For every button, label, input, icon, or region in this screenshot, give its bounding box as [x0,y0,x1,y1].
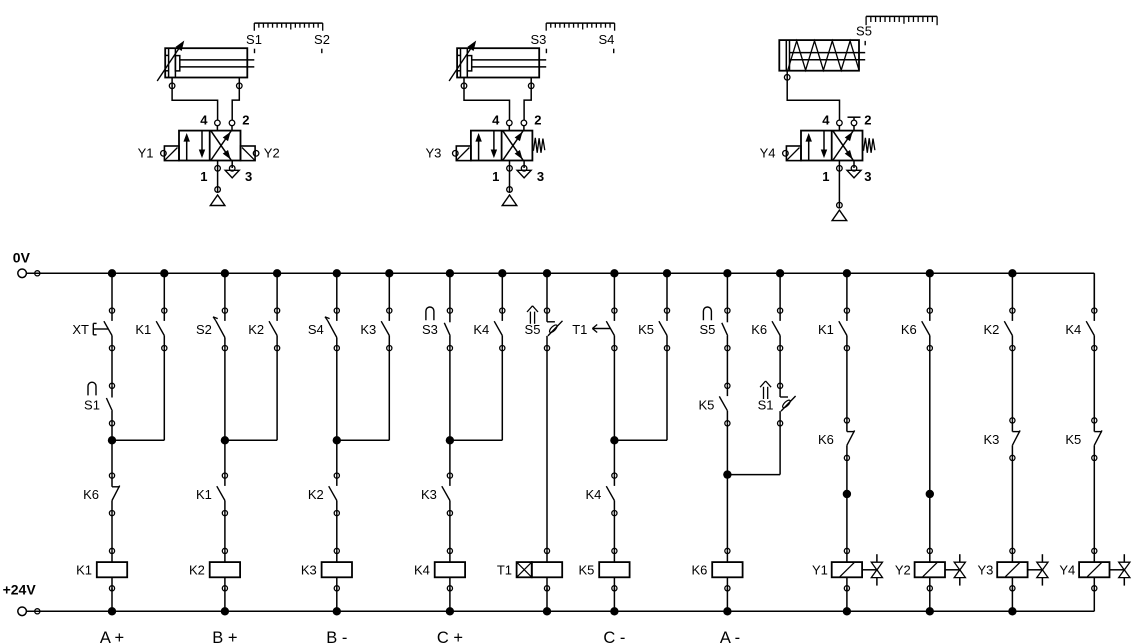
contact K2 (NO) [308,473,340,516]
junction dots rung A- [723,269,731,615]
wire solenoid Y3 to +24V [1011,588,1013,611]
wire 0V to XT [111,273,113,310]
svg-text:K1: K1 [818,322,834,337]
junction dot branch K3 [385,269,393,277]
node join K5 branch [610,436,667,444]
compressed air supply for V2 [502,187,517,206]
valve V3 port 4 pin [837,120,843,131]
valve V2 port 4 pin [507,120,513,131]
valve V2 port 2 pin [521,120,527,131]
valve V3 port 3 label [864,169,871,184]
label C - [603,629,625,644]
valve V3 return spring [864,138,875,153]
node join K4 branch [446,436,503,444]
valve V1 port 3 exhaust [225,161,239,178]
svg-text:K3: K3 [983,432,999,447]
0V label [13,250,31,266]
wire coil K2 to +24V [224,588,226,611]
node join K3 branch [333,436,390,444]
wire 0V to S4 [336,273,338,310]
junction dots rung B+ [221,269,229,615]
solenoid Y1 [138,146,179,161]
svg-text:K6: K6 [751,322,767,337]
wire S1 branch down [779,423,781,474]
valve V1 port 4 label [200,112,208,127]
svg-text:0V: 0V [13,250,31,266]
svg-text:T1: T1 [572,322,587,337]
wire node to K1 [224,440,226,475]
junction dots rung C+ [446,269,454,615]
wire 0V to S5 reed [726,273,728,310]
solenoid coil Y4 [1059,548,1130,591]
wire cylinder A left port to valve port 4 [172,89,218,121]
svg-text:Y1: Y1 [812,563,828,578]
right edge wire (top rail to Y4 rung) [1093,273,1095,310]
wire 0V to K2 contact [1011,273,1013,310]
svg-text:B -: B - [326,629,347,644]
contact K6 (NO) [901,308,933,351]
wire coil K1 to +24V [111,588,113,611]
wire node to coil K6 [726,475,728,551]
junction dots rung Y3 [1008,269,1016,615]
wire node to K4 [613,440,615,475]
wire solenoid Y4 to bottom rail corner [1093,588,1095,611]
wire 0V to S2 [224,273,226,310]
proximity sensor label S3 [530,32,546,53]
svg-text:S1: S1 [246,32,262,47]
contact K2 (NO, self-holding) [248,308,280,351]
distance ruler for cylinder A [254,23,322,31]
junction dot branch K4 [498,269,506,277]
wire S5 to K5 [726,348,728,386]
contact K1 (NO) [818,308,850,351]
contact K1 (NO) [196,473,228,516]
contact K2 (NO) [983,308,1015,351]
svg-text:XT: XT [72,322,89,337]
junction dots rung C- [610,269,618,615]
contact K6 (NC) [83,473,120,516]
svg-text:S3: S3 [530,32,546,47]
valve V3 port 3 exhaust [847,161,861,178]
wire K2 to K3 [1011,348,1013,420]
valve V3 port 1 pin [837,161,843,208]
wire S2 to node [224,348,226,440]
svg-text:S2: S2 [196,322,212,337]
valve V2 port 4 label [492,112,500,127]
svg-text:2: 2 [534,112,541,127]
wire S1 to node [111,423,113,440]
+24V supply rail [18,607,1095,616]
svg-text:C -: C - [603,629,625,644]
contact K5 (NO) [698,383,730,426]
junction dots rung A+ [108,269,116,615]
relay coil K3 [301,548,352,591]
svg-text:S3: S3 [422,322,438,337]
wire coil K3 to +24V [336,588,338,611]
wire coil K4 to +24V [449,588,451,611]
valve V1 port 1 label [200,169,207,184]
svg-text:K3: K3 [360,322,376,337]
svg-text:K1: K1 [135,322,151,337]
svg-text:3: 3 [245,169,252,184]
solenoid coil Y1 [812,548,883,591]
wire 0V to K6 contact [929,273,931,310]
valve V2 port 1 label [492,169,499,184]
wire K6 to coil K1 [111,513,113,551]
wire K6 to solenoid Y1 [846,458,848,551]
wire S3 to node [449,348,451,440]
cylinder C (single-acting with spring return) [779,40,865,81]
svg-text:K6: K6 [691,563,707,578]
cylinder B (double-acting with adjustable end-position cushioning) [449,41,546,89]
valve V3 body (4/2-way solenoid valve, spring return) [801,131,863,161]
wire node to K3 [449,440,451,475]
limit switch S2 (NO) [196,308,228,351]
wire 0V to S5 [546,273,548,310]
valve V1 port 3 label [245,169,252,184]
wire coil K6 to +24V [726,588,728,611]
compressed air supply for V1 [210,187,225,206]
contact K6 (NC) [818,418,855,461]
wire 0V to K6 contact [779,273,781,310]
valve V3 port 1 label [822,169,829,184]
wire K1 to coil K2 [224,513,226,551]
svg-text:Y2: Y2 [895,563,911,578]
pushbutton XT (NO) [72,308,114,351]
contact K5 (NO, self-holding) [638,308,670,351]
wire 0V to T1 contact [613,273,615,310]
wire T1 to node [613,348,615,440]
solenoid Y3 [425,146,470,161]
reed switch S3 (NO) [422,307,453,351]
proximity sensor label S4 [598,32,614,53]
svg-text:S5: S5 [525,322,541,337]
svg-text:S4: S4 [598,32,614,47]
wire coil K5 to +24V [613,588,615,611]
wire 0V to K4 contact [501,273,503,310]
svg-text:K6: K6 [901,322,917,337]
svg-text:K1: K1 [76,563,92,578]
overtravel switch S5 (NC) [525,306,563,351]
wire 0V to K1 contact [163,273,165,310]
svg-text:S5: S5 [856,24,872,39]
node on Y1 rung [843,490,851,498]
wire K5 to solenoid Y4 [1093,458,1095,551]
valve V3 port 2 plug [848,117,861,130]
wire cylinder B right port to valve port 2 [524,89,531,121]
valve V2 body (4/2-way solenoid valve, spring return) [471,131,533,161]
junction dot branch K2 [273,269,281,277]
timer relay coil T1 [497,548,562,591]
junction dots rung T1 [543,269,551,615]
contact K4 (NO) [585,473,617,516]
svg-text:S1: S1 [84,397,100,412]
wire cylinder A right port to valve port 2 [232,89,239,121]
valve V2 port 3 exhaust [517,161,531,178]
wire K3 to coil K4 [449,513,451,551]
node join K1 branch [108,436,165,444]
reed switch S5 (NO) [699,307,730,351]
svg-text:K2: K2 [308,487,324,502]
relay coil K4 [414,548,465,591]
wire K3 branch down [388,348,390,440]
wire node to K2 [336,440,338,475]
svg-text:S5: S5 [699,322,715,337]
contact K4 (NO) [1065,308,1097,351]
label C + [437,629,463,644]
compressed air supply for V3 [832,202,847,220]
wire 0V to K3 contact [388,273,390,310]
svg-text:C +: C + [437,629,463,644]
junction dots rung Y2 [926,269,934,615]
wire K1 to K6 [846,348,848,420]
svg-text:2: 2 [242,112,249,127]
svg-text:Y3: Y3 [425,146,441,161]
wire K5 to node [726,423,728,474]
svg-text:K5: K5 [698,397,714,412]
wire K2 branch down [276,348,278,440]
svg-text:B +: B + [212,629,237,644]
proximity sensor label S5 [856,24,872,46]
svg-text:4: 4 [200,112,208,127]
wire K6 to S1 [779,348,781,386]
relay coil K6 [691,548,742,591]
cylinder A (double-acting with adjustable end-position cushioning) [157,41,254,89]
wire 0V to K5 contact [666,273,668,310]
svg-text:A +: A + [100,629,124,644]
contact K5 (NC) [1065,418,1102,461]
contact K3 (NO, self-holding) [360,308,392,351]
relay coil K2 [189,548,240,591]
wire 0V to K2 contact [276,273,278,310]
label A + [100,629,124,644]
valve V2 port 1 pin [507,161,513,193]
svg-text:A -: A - [720,629,740,644]
svg-text:K2: K2 [248,322,264,337]
node join K6-S1 branch [723,470,780,478]
wire S4 to node [336,348,338,440]
junction dots rung Y1 [843,269,851,615]
wire XT to S1 [111,348,113,386]
0V supply rail [18,269,1095,278]
valve V2 port 2 label [534,112,541,127]
junction dot branch K1 [160,269,168,277]
valve V3 port 4 label [822,112,830,127]
label B + [212,629,237,644]
svg-text:S2: S2 [314,32,330,47]
svg-text:1: 1 [822,169,829,184]
wire S5 to timer coil T1 [546,348,548,551]
svg-text:3: 3 [537,169,544,184]
wire cylinder C port to valve port 4 [787,80,839,120]
valve V2 return spring [533,138,544,153]
contact K1 (NO, self-holding) [135,308,167,351]
valve V3 port 2 label [864,112,871,127]
svg-text:K2: K2 [189,563,205,578]
junction dot branch K6-S1 [776,269,784,277]
label B - [326,629,347,644]
valve V1 port 2 label [242,112,249,127]
node on Y2 rung [926,490,934,498]
svg-text:Y1: Y1 [138,146,154,161]
svg-text:4: 4 [822,112,830,127]
svg-text:K4: K4 [473,322,489,337]
svg-text:K3: K3 [301,563,317,578]
wire solenoid Y2 to +24V [929,588,931,611]
svg-text:Y3: Y3 [977,563,993,578]
svg-text:K6: K6 [818,432,834,447]
label A - [720,629,740,644]
wire top rail corner to K4 contact [1093,273,1095,310]
overtravel switch S1 (NC) [758,381,796,426]
svg-text:Y2: Y2 [264,146,280,161]
wire cylinder B left port to valve port 4 [464,89,510,121]
junction dot branch K5 [663,269,671,277]
wire coil T1 to +24V [546,588,548,611]
wire K6 to solenoid Y2 [929,348,931,551]
svg-text:K5: K5 [578,563,594,578]
svg-text:1: 1 [492,169,499,184]
svg-text:3: 3 [864,169,871,184]
svg-text:K5: K5 [1065,432,1081,447]
valve V1 port 2 pin [229,120,235,131]
svg-text:Y4: Y4 [1059,563,1075,578]
svg-text:Y4: Y4 [760,146,776,161]
solenoid coil Y2 [895,548,966,591]
contact K3 (NC) [983,418,1020,461]
contact K6 (NO) [751,308,783,351]
svg-text:K1: K1 [196,487,212,502]
contact K4 (NO, self-holding) [473,308,505,351]
wire 0V to K1 contact [846,273,848,310]
timer contact T1 (NO, on-delay) [572,308,617,351]
relay coil K1 [76,548,127,591]
valve V1 port 4 pin [215,120,221,131]
wire K4 to K5 [1093,348,1095,420]
wire K4 branch down [501,348,503,440]
svg-text:S4: S4 [308,322,324,337]
svg-text:+24V: +24V [3,582,37,598]
wire K3 to solenoid Y3 [1011,458,1013,551]
+24V label [3,582,37,598]
distance ruler for cylinder C [866,16,937,25]
solenoid Y2 [241,146,280,161]
svg-text:2: 2 [864,112,871,127]
wire solenoid Y1 to +24V [846,588,848,611]
solenoid Y4 [760,146,801,161]
wire K1 branch down [163,348,165,440]
svg-text:K6: K6 [83,487,99,502]
junction dots rung B- [333,269,341,615]
svg-text:4: 4 [492,112,500,127]
contact K3 (NO) [421,473,453,516]
wire K4 to coil K5 [613,513,615,551]
proximity sensor label S1 [246,32,262,53]
solenoid coil Y3 [977,548,1048,591]
node join K2 branch [221,436,277,444]
distance ruler for cylinder B [546,23,614,31]
svg-text:K5: K5 [638,322,654,337]
proximity sensor label S2 [314,32,330,53]
wire K2 to coil K3 [336,513,338,551]
wire node to K6 [111,440,113,475]
svg-text:K4: K4 [1065,322,1081,337]
svg-text:K4: K4 [414,563,430,578]
valve V1 body (4/2-way double solenoid impulse valve) [179,131,241,161]
right edge wire (Y4 coil to bottom rail) [0,0,1,1]
valve V1 port 1 pin [215,161,221,193]
limit switch S4 (NO) [308,308,340,351]
reed switch S1 (NO) [84,382,115,426]
valve V2 port 3 label [537,169,544,184]
svg-text:K4: K4 [585,487,601,502]
wire K5 branch down [666,348,668,440]
svg-text:1: 1 [200,169,207,184]
relay coil K5 [578,548,629,591]
svg-text:T1: T1 [497,563,512,578]
svg-text:K2: K2 [983,322,999,337]
svg-text:S1: S1 [758,397,774,412]
svg-text:K3: K3 [421,487,437,502]
wire 0V to S3 [449,273,451,310]
